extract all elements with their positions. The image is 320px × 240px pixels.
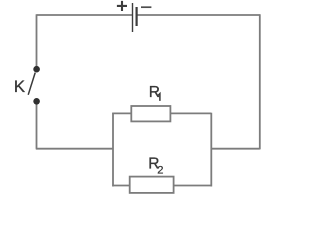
switch top contact dot [33, 66, 40, 73]
wire switch to bottom corner [36, 103, 38, 149]
battery positive plate (long) [132, 3, 134, 32]
wire top horizontal right of battery [137, 14, 260, 16]
svg-text:K: K [14, 77, 26, 96]
wire top branch right segment [170, 112, 211, 114]
wire top branch left segment [112, 112, 132, 114]
wire parallel right vertical [210, 113, 212, 187]
battery minus sign [141, 6, 151, 8]
resistor R1 [131, 106, 170, 121]
svg-text:R: R [149, 84, 160, 101]
wire parallel left vertical [112, 113, 114, 187]
wire bottom branch right segment [173, 185, 211, 187]
svg-text:2: 2 [157, 165, 163, 177]
wire bottom horizontal to parallel junction [36, 148, 113, 150]
switch bottom contact dot [33, 98, 40, 105]
resistor R2 [130, 177, 174, 193]
switch blade [28, 73, 35, 95]
wire top horizontal left of battery [37, 14, 133, 16]
battery negative plate (short thick) [136, 7, 138, 26]
battery plus sign [117, 1, 127, 11]
wire right vertical [259, 14, 261, 149]
wire left vertical (top corner to switch) [36, 14, 38, 67]
wire bottom branch left segment [112, 185, 130, 187]
wire mid right horizontal [211, 148, 259, 150]
